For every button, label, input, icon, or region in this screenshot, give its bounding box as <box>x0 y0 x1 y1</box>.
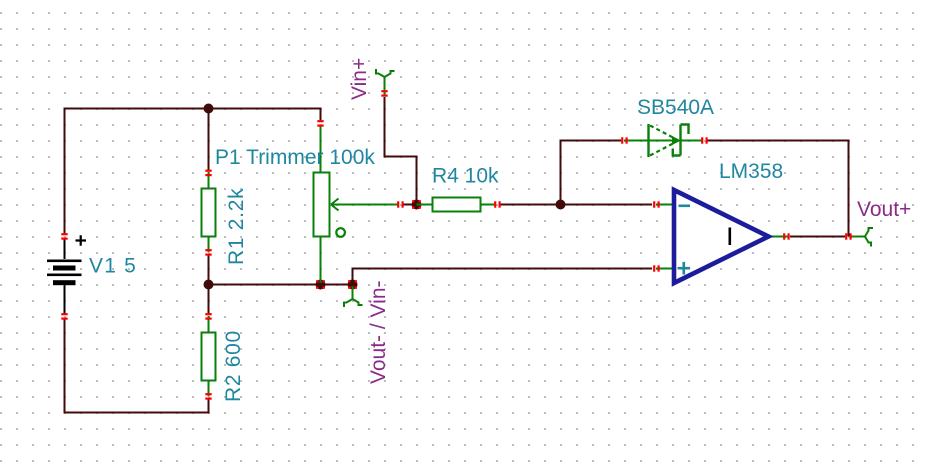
node E (wiper / R4 / Vin+) <box>412 200 422 210</box>
wire R2 bottom to battery- <box>65 318 209 413</box>
schottky diode D1 SB540A <box>621 124 708 157</box>
svg-text:Vin+: Vin+ <box>348 58 371 100</box>
resistor R4 <box>417 198 501 212</box>
wire node D to op-amp non-inverting input <box>353 269 653 284</box>
svg-text:R2 600: R2 600 <box>222 330 245 402</box>
trimmer potentiometer P1 <box>314 120 404 283</box>
svg-text:SB540A: SB540A <box>637 96 714 119</box>
wire R1 bottom to node B <box>208 254 210 283</box>
wire R4 to op-amp inverting input <box>499 204 652 206</box>
svg-text:P1 Trimmer 100k: P1 Trimmer 100k <box>215 146 375 169</box>
node B (mid rail / R1 / R2) <box>204 280 214 290</box>
node F (feedback tap) <box>556 200 566 210</box>
svg-text:R4 10k: R4 10k <box>432 165 499 188</box>
resistor R1 <box>202 170 216 256</box>
resistor R2 <box>202 313 216 400</box>
terminal Vout+ <box>845 228 873 247</box>
svg-text:LM358: LM358 <box>719 160 783 183</box>
battery V1 <box>47 233 86 320</box>
terminal Vin+ <box>376 69 395 97</box>
wire node A to R1 top <box>208 109 210 171</box>
wire wiper pin to node E <box>403 204 417 206</box>
terminal Vout- / Vin- <box>344 286 363 307</box>
wire diode cathode to output node <box>707 141 849 237</box>
svg-text:Vout+: Vout+ <box>857 198 911 221</box>
wire node F up to diode anode <box>561 141 622 205</box>
wire Vin+ terminal to node E <box>385 97 417 203</box>
node A (top rail / R1) <box>204 104 214 114</box>
wire op-amp output to node G <box>790 236 845 238</box>
svg-text:R1 2.2k: R1 2.2k <box>225 188 248 265</box>
svg-text:V1 5: V1 5 <box>89 255 137 278</box>
wire battery+ to top rail to P1 top <box>65 109 321 235</box>
svg-text:Vout- / Vin-: Vout- / Vin- <box>367 280 390 384</box>
node C (P1 bottom on mid rail) <box>316 280 326 290</box>
wire mid rail node B to node D <box>209 284 353 286</box>
node D (Vout-/Vin- tap) <box>348 280 358 290</box>
wire node B to R2 top <box>208 285 210 314</box>
op-amp U1 LM358 <box>653 190 790 283</box>
